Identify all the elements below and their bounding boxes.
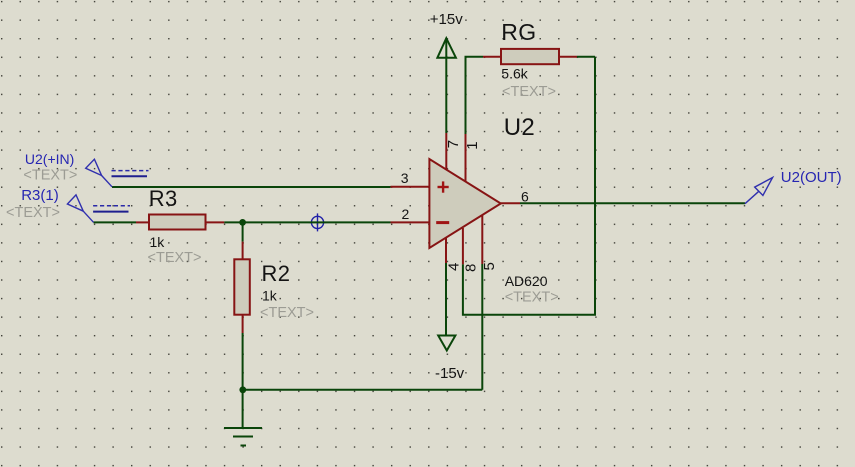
svg-text:1: 1: [464, 141, 481, 149]
svg-text:<TEXT>: <TEXT>: [502, 84, 556, 100]
svg-text:-15v: -15v: [435, 365, 465, 382]
svg-text:1k: 1k: [262, 288, 278, 304]
svg-text:U2(OUT): U2(OUT): [781, 169, 842, 186]
svg-text:U2: U2: [504, 114, 535, 141]
svg-text:U2(+IN): U2(+IN): [25, 151, 74, 167]
svg-text:1k: 1k: [150, 234, 166, 250]
svg-text:+15v: +15v: [430, 11, 463, 28]
svg-text:5: 5: [481, 262, 498, 270]
svg-text:AD620: AD620: [505, 273, 548, 289]
svg-text:3: 3: [401, 170, 409, 186]
svg-text:<TEXT>: <TEXT>: [260, 305, 314, 321]
svg-text:R3(1): R3(1): [21, 187, 59, 204]
svg-text:2: 2: [402, 206, 410, 222]
svg-text:R2: R2: [262, 261, 291, 286]
svg-text:<TEXT>: <TEXT>: [23, 168, 77, 184]
svg-text:R3: R3: [149, 186, 178, 211]
svg-text:<TEXT>: <TEXT>: [148, 250, 202, 266]
svg-text:7: 7: [445, 140, 462, 148]
svg-text:<TEXT>: <TEXT>: [505, 290, 559, 306]
svg-text:4: 4: [446, 263, 463, 271]
svg-text:<TEXT>: <TEXT>: [6, 205, 60, 221]
svg-text:5.6k: 5.6k: [501, 66, 528, 82]
svg-text:8: 8: [462, 264, 479, 272]
svg-text:6: 6: [521, 188, 529, 204]
svg-text:RG: RG: [501, 19, 536, 45]
